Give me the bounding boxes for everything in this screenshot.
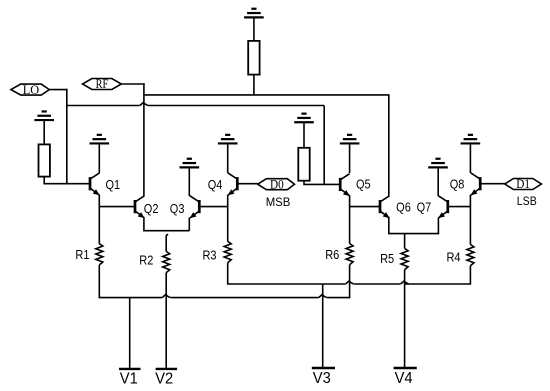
wire bus A drop to Q5 base (323, 106, 325, 185)
transistor Q3 (190, 196, 200, 219)
wire bus A horizontal (LO-Q5 base) (67, 103, 324, 106)
wire bus B horizontal (RF-Q6 collector) (144, 94, 390, 96)
svg-text:R4: R4 (447, 251, 461, 265)
wire Q3 collector (188, 168, 190, 196)
wire Q7 collector (437, 168, 439, 196)
net tag D1 (505, 177, 542, 192)
label Q6 (396, 201, 411, 215)
label V1 (120, 370, 138, 387)
label V4 (395, 370, 413, 387)
wire Q8 emitter down to R4 (469, 195, 471, 245)
svg-text:D0: D0 (270, 177, 284, 192)
source V3 bar (312, 367, 335, 369)
svg-text:V3: V3 (313, 370, 331, 387)
wire R2 down to V2 (165, 273, 167, 369)
wire Q8 base to D1 (480, 183, 505, 185)
transistor Q4 (228, 173, 238, 196)
wire resistor to Q1 base (44, 177, 90, 184)
wire RF vertical down to Q2 collector (143, 83, 145, 196)
svg-text:V1: V1 (120, 370, 138, 387)
wire ground to R stem (253, 18, 255, 41)
svg-text:Q4: Q4 (208, 178, 223, 192)
wire R5 down to V4 (404, 270, 406, 368)
resistor R4 (467, 245, 474, 266)
source V2 bar (156, 368, 178, 370)
svg-text:Q2: Q2 (144, 202, 159, 216)
wire R4 to bus C (405, 266, 471, 284)
wire Q5 emitter to Q6 base (350, 206, 380, 208)
wire V3 (322, 284, 324, 368)
svg-text:R2: R2 (139, 254, 153, 268)
transistor Q1 (90, 173, 100, 196)
svg-text:MSB: MSB (266, 196, 291, 209)
wire R3 to bus C (228, 263, 323, 284)
wire LO to vertical (49, 89, 67, 91)
wire V1 (129, 298, 131, 369)
source V1 bar (119, 368, 141, 370)
ground (above Q1) (90, 135, 110, 144)
ground (mid bias) (294, 114, 314, 123)
label Q4 (208, 178, 223, 192)
wire Q4 base to D0 (237, 183, 258, 185)
wire LO vertical down to Q1 base (66, 89, 68, 184)
wire bus C with hops (323, 281, 409, 284)
svg-text:Q5: Q5 (356, 178, 371, 192)
transistor Q5 (340, 174, 350, 197)
wire bus D with hops (130, 295, 350, 298)
label MSB (266, 196, 291, 209)
wire Q4 emitter to Q3 base (199, 206, 227, 208)
svg-text:Q6: Q6 (396, 201, 411, 215)
net tag D0 (258, 177, 295, 192)
wire resistor to Q5 base (304, 181, 340, 185)
wire R6 down to bus D (349, 265, 351, 299)
ground (above Q7) (428, 159, 448, 168)
net tag LO (11, 83, 49, 97)
resistor (box) left bias (39, 144, 50, 176)
wire R2 hook from emitter join (166, 234, 168, 251)
resistor R3 (224, 241, 231, 262)
ground (left bias) (34, 111, 54, 120)
svg-text:Q7: Q7 (417, 201, 432, 215)
label R1 (75, 248, 89, 262)
label Q1 (106, 178, 121, 192)
wire Q7 emitter (437, 218, 439, 235)
label R5 (380, 252, 394, 266)
label Q7 (417, 201, 432, 215)
svg-text:R1: R1 (75, 248, 89, 262)
ground (above Q3) (180, 159, 200, 168)
wire R5 tap (404, 234, 406, 249)
wire Q4 emitter down to R3 (227, 195, 229, 242)
label R2 (139, 254, 153, 268)
wire Q3 emitter (188, 218, 190, 231)
wire Q6 emitter (389, 218, 439, 234)
source V4 bar (394, 367, 417, 369)
svg-text:LSB: LSB (517, 195, 537, 208)
label Q8 (450, 178, 465, 192)
ground (above Q8) (461, 135, 481, 144)
svg-text:R6: R6 (325, 249, 339, 263)
svg-text:Q3: Q3 (170, 202, 185, 216)
wire RF to vertical (121, 83, 144, 85)
resistor R3 top wire (227, 240, 229, 242)
wire R1 to bus D (99, 265, 129, 298)
svg-text:Q8: Q8 (450, 178, 465, 192)
wire Q5 collector (349, 145, 351, 174)
svg-text:R5: R5 (380, 252, 394, 266)
svg-text:R3: R3 (202, 249, 216, 263)
resistor (box) mid bias (298, 148, 309, 181)
label LSB (517, 195, 537, 208)
label Q3 (170, 202, 185, 216)
wire Q2 emitter (144, 218, 189, 231)
resistor (box) top bias (248, 41, 259, 75)
label R4 (447, 251, 461, 265)
resistor R5 (401, 248, 408, 269)
resistor R1 (96, 244, 103, 265)
net tag RF (83, 78, 122, 91)
label V2 (155, 370, 173, 387)
wire Q8 emitter to Q7 base (448, 206, 471, 208)
transistor Q2 (135, 196, 145, 219)
wire Q1 collector (98, 145, 100, 174)
wire Q8 collector (469, 145, 471, 174)
wire bus B drop to Q6 collector (388, 95, 390, 196)
ground (top supply) (244, 9, 264, 18)
svg-text:V4: V4 (395, 370, 413, 387)
wire Q4 collector (227, 145, 229, 174)
wire Q5 emitter down to R6 (349, 196, 351, 244)
label Q5 (356, 178, 371, 192)
wire ground to resistor (43, 121, 45, 144)
label Q2 (144, 202, 159, 216)
wire ground to resistor (303, 123, 305, 148)
svg-text:RF: RF (96, 78, 109, 91)
svg-text:V2: V2 (155, 370, 173, 387)
label R3 (202, 249, 216, 263)
svg-text:LO: LO (23, 83, 39, 97)
resistor R6 (346, 244, 353, 265)
label V3 (313, 370, 331, 387)
svg-text:Q1: Q1 (106, 178, 121, 192)
wire R bottom to RF bus (253, 75, 255, 95)
wire Q1 emitter down to R1 (98, 195, 100, 244)
transistor Q7 (438, 196, 448, 219)
svg-text:D1: D1 (516, 177, 530, 192)
resistor R2 (163, 251, 170, 272)
wire Q1 emitter to Q2 base (99, 206, 135, 208)
label R6 (325, 249, 339, 263)
transistor Q8 (471, 173, 481, 196)
ground (above Q4) (218, 135, 238, 144)
transistor Q6 (380, 196, 390, 219)
ground (above Q5) (340, 135, 360, 144)
